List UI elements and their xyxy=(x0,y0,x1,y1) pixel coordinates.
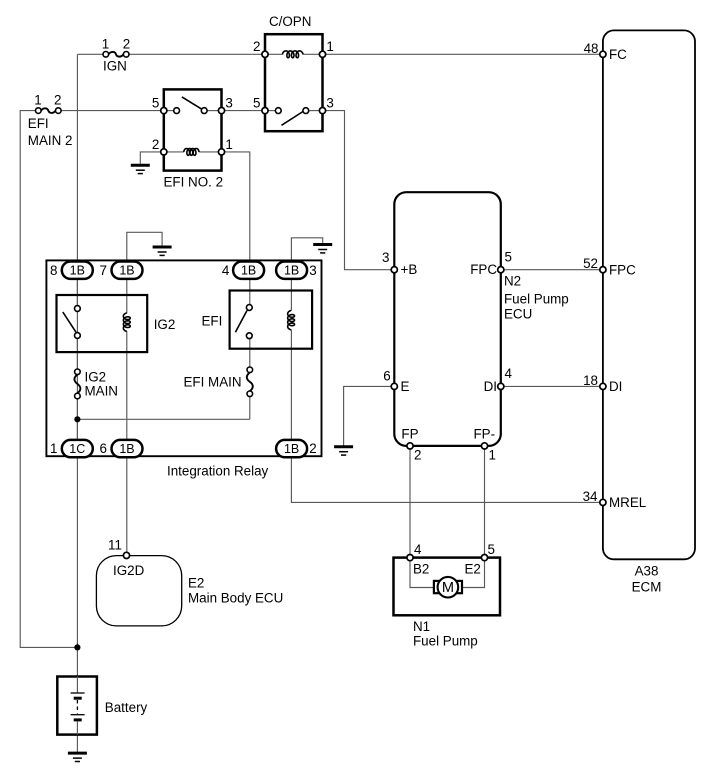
coil of EFI NO.2 relay xyxy=(184,149,199,156)
relay EFI box (inside Integration Relay) xyxy=(230,291,313,349)
coil of EFI relay xyxy=(288,311,295,330)
wire: EFI NO.2 pin 2 to ground xyxy=(140,152,164,165)
switch of EFI relay xyxy=(235,311,247,333)
ground (battery) xyxy=(68,752,87,755)
terminal FPC (pin 5) of Fuel Pump ECU xyxy=(498,267,504,273)
junction: battery / EFI MAIN 2 branch node xyxy=(74,644,80,650)
wire: EFI NO.2 coil stubs xyxy=(164,151,184,153)
terminal pin 2 of C/OPN xyxy=(262,51,268,57)
wire: Fuel Pump ECU FP to Fuel Pump pin 4 xyxy=(409,446,411,558)
terminal pin 5 of C/OPN xyxy=(262,108,268,114)
terminal FPC (pin 52) of ECM xyxy=(600,267,606,273)
svg-text:IGN: IGN xyxy=(103,59,127,74)
Main Body ECU E2 box xyxy=(96,556,181,626)
svg-text:1: 1 xyxy=(50,441,57,456)
svg-text:2: 2 xyxy=(309,441,316,456)
wire: IG2 relay switch column xyxy=(76,278,78,306)
wire: fuel pump motor return xyxy=(461,559,485,588)
svg-text:FP-: FP- xyxy=(474,427,496,442)
connector 1B (Integration Relay pin 7) xyxy=(112,262,143,279)
wire: battery negative to ground xyxy=(76,735,78,754)
svg-text:Main Body ECU: Main Body ECU xyxy=(188,590,283,605)
svg-text:18: 18 xyxy=(583,373,598,388)
svg-text:1B: 1B xyxy=(70,264,85,278)
svg-text:48: 48 xyxy=(584,41,599,56)
terminal pin 1 of EFI NO.2 xyxy=(218,149,224,155)
fusible link EFI MAIN xyxy=(247,372,253,391)
svg-text:FPC: FPC xyxy=(609,263,636,278)
wire: Fuel Pump ECU DI to ECM DI xyxy=(501,385,602,387)
svg-text:4: 4 xyxy=(414,542,422,557)
svg-text:3: 3 xyxy=(382,250,389,265)
terminal pin 5 of EFI NO.2 xyxy=(161,108,167,114)
terminal E (pin 6) of Fuel Pump ECU xyxy=(391,383,397,389)
svg-text:5: 5 xyxy=(505,250,512,265)
svg-text:IG2: IG2 xyxy=(154,317,176,332)
svg-text:FP: FP xyxy=(401,427,418,442)
terminal pin 3 of EFI NO.2 xyxy=(218,108,224,114)
svg-text:MREL: MREL xyxy=(609,495,646,510)
svg-text:8: 8 xyxy=(50,263,57,278)
svg-text:5: 5 xyxy=(488,542,495,557)
svg-text:3: 3 xyxy=(326,96,333,111)
wire: IGN fuse to C/OPN pin 2 xyxy=(129,53,265,55)
svg-text:2: 2 xyxy=(123,37,130,52)
motor M of fuel pump xyxy=(434,577,462,598)
svg-text:2: 2 xyxy=(253,39,260,54)
svg-text:ECM: ECM xyxy=(632,579,662,594)
ground (Fuel Pump ECU E) xyxy=(334,445,353,448)
wire: EFI NO.2 pin 3 to C/OPN pin 5 xyxy=(222,110,266,112)
battery xyxy=(57,677,97,735)
svg-text:A38: A38 xyxy=(635,563,659,578)
wire: Fuel Pump ECU FP- to Fuel Pump pin 5 xyxy=(484,446,486,558)
terminal FC (pin 48) of ECM xyxy=(600,51,606,57)
wire: Integration Relay pin 7 to ground xyxy=(127,232,162,262)
terminal pin 1 of C/OPN xyxy=(319,51,325,57)
connector 1B (Integration Relay pin 3) xyxy=(276,262,307,279)
coil of C/OPN relay xyxy=(282,51,303,58)
svg-text:7: 7 xyxy=(100,263,107,278)
connector 1B (Integration Relay pin 4) xyxy=(233,262,264,279)
wire: EFI NO.2 pin 1 to Integration Relay pin 4 xyxy=(222,152,250,262)
wire: C/OPN pin 3 to Fuel Pump ECU +B xyxy=(323,111,395,270)
Fuel Pump N1 box xyxy=(394,558,501,616)
wire: Integration Relay pin 6 to Main Body ECU IG2D xyxy=(126,456,128,552)
wire: Integration Relay pin 3 to ground xyxy=(291,238,322,262)
svg-text:6: 6 xyxy=(383,368,390,383)
terminal pin 2 of EFI NO.2 xyxy=(161,149,167,155)
svg-text:1: 1 xyxy=(34,93,41,108)
ground (Integration Relay pin 7) xyxy=(153,246,172,249)
ground (EFI NO.2 pin 2) xyxy=(131,164,150,167)
svg-text:ECU: ECU xyxy=(504,306,532,321)
fuse EFI MAIN 2 xyxy=(41,108,55,113)
svg-text:1B: 1B xyxy=(119,264,134,278)
relay C/OPN box xyxy=(265,34,323,131)
wire: EFI relay switch column xyxy=(249,278,251,305)
svg-text:1B: 1B xyxy=(284,442,299,456)
svg-text:1C: 1C xyxy=(69,442,85,456)
svg-text:+B: +B xyxy=(401,262,418,277)
fusible link IG2 MAIN xyxy=(74,374,80,393)
connector 1C (Integration Relay pin 1) xyxy=(62,440,93,457)
svg-text:E2: E2 xyxy=(188,576,204,591)
wire: C/OPN coil stubs xyxy=(265,53,283,55)
svg-text:C/OPN: C/OPN xyxy=(269,14,311,29)
svg-text:Battery: Battery xyxy=(105,700,148,715)
svg-text:1: 1 xyxy=(225,137,232,152)
svg-text:M: M xyxy=(442,580,454,596)
svg-text:Fuel Pump: Fuel Pump xyxy=(504,292,569,307)
svg-text:FPC: FPC xyxy=(470,262,497,277)
svg-text:N2: N2 xyxy=(504,273,521,288)
svg-text:N1: N1 xyxy=(413,619,430,634)
svg-text:11: 11 xyxy=(108,538,122,553)
svg-text:1: 1 xyxy=(326,39,333,54)
svg-text:1B: 1B xyxy=(119,442,134,456)
svg-text:Fuel Pump: Fuel Pump xyxy=(413,634,478,649)
switch of C/OPN relay xyxy=(265,110,275,112)
coil of IG2 relay xyxy=(123,313,130,332)
svg-text:MAIN: MAIN xyxy=(85,384,118,399)
terminal FP (pin 2) of Fuel Pump ECU xyxy=(407,443,413,449)
wire: EFI relay coil column xyxy=(290,278,292,311)
svg-text:E: E xyxy=(401,379,410,394)
relay EFI NO. 2 box xyxy=(164,89,222,170)
wire: Integration Relay pin 2 to ECM MREL xyxy=(291,456,602,502)
ground (Integration Relay pin 3) xyxy=(313,243,332,246)
connector 1B (Integration Relay pin 6) xyxy=(112,440,143,457)
terminal DI (pin 18) of ECM xyxy=(600,383,606,389)
svg-text:FC: FC xyxy=(609,47,627,62)
wire: battery column to IGN fuse xyxy=(77,53,103,55)
fuse IGN xyxy=(109,52,124,57)
svg-text:1: 1 xyxy=(102,37,109,52)
terminal B2 (pin 4) of Fuel Pump xyxy=(407,555,413,561)
svg-text:3: 3 xyxy=(225,96,232,111)
Integration Relay box xyxy=(46,260,321,456)
svg-text:1B: 1B xyxy=(241,264,256,278)
wire: battery branch to EFI MAIN 2 fuse xyxy=(20,111,77,648)
relay IG2 box (inside Integration Relay) xyxy=(57,295,148,352)
terminal +B (pin 3) of Fuel Pump ECU xyxy=(391,267,397,273)
svg-text:4: 4 xyxy=(505,366,513,381)
wire: Fuel Pump ECU E to ground xyxy=(344,386,395,446)
svg-text:DI: DI xyxy=(484,379,497,394)
terminal FP- (pin 1) of Fuel Pump ECU xyxy=(481,443,487,449)
terminal DI (pin 4) of Fuel Pump ECU xyxy=(498,383,504,389)
terminal IG2D (pin 11) of Main Body ECU xyxy=(123,552,129,558)
wire: EFI MAIN 2 fuse to EFI NO.2 pin 5 xyxy=(61,110,164,112)
svg-text:EFI: EFI xyxy=(28,116,49,131)
wire: battery positive column xyxy=(76,54,78,676)
svg-text:DI: DI xyxy=(609,379,622,394)
svg-text:2: 2 xyxy=(152,137,159,152)
svg-text:MAIN 2: MAIN 2 xyxy=(28,133,73,148)
svg-text:4: 4 xyxy=(222,263,230,278)
svg-text:B2: B2 xyxy=(413,562,429,577)
svg-text:1: 1 xyxy=(489,447,496,462)
ECM A38 box xyxy=(603,30,695,559)
junction: IG2 MAIN / EFI MAIN node xyxy=(74,416,80,422)
svg-text:2: 2 xyxy=(54,93,61,108)
svg-text:5: 5 xyxy=(152,96,159,111)
svg-text:34: 34 xyxy=(583,489,598,504)
wire: C/OPN pin 1 to ECM FC xyxy=(323,53,603,55)
wire: Fuel Pump ECU FPC to ECM FPC xyxy=(501,269,602,271)
svg-text:EFI MAIN: EFI MAIN xyxy=(184,375,242,390)
svg-text:EFI NO. 2: EFI NO. 2 xyxy=(164,175,224,190)
wire: IG2 coil column xyxy=(126,278,128,313)
terminal pin 3 of C/OPN xyxy=(319,108,325,114)
switch of EFI NO.2 relay xyxy=(164,110,174,112)
terminal MREL (pin 34) of ECM xyxy=(600,499,606,505)
svg-text:IG2: IG2 xyxy=(85,370,107,385)
svg-text:EFI: EFI xyxy=(202,314,223,329)
svg-text:2: 2 xyxy=(414,447,421,462)
terminal E2 (pin 5) of Fuel Pump xyxy=(481,555,487,561)
connector 1B (Integration Relay pin 8) xyxy=(62,262,93,279)
svg-text:52: 52 xyxy=(583,256,598,271)
connector 1B (Integration Relay pin 2) xyxy=(276,440,307,457)
svg-text:E2: E2 xyxy=(465,562,481,577)
svg-text:6: 6 xyxy=(100,441,107,456)
svg-text:IG2D: IG2D xyxy=(113,563,145,578)
wire: junction row IG2 MAIN / EFI MAIN xyxy=(77,418,249,420)
Fuel Pump ECU N2 box xyxy=(394,192,501,446)
wire: fuel pump motor feed xyxy=(410,559,435,588)
svg-text:5: 5 xyxy=(253,96,260,111)
svg-text:3: 3 xyxy=(309,263,316,278)
svg-text:1B: 1B xyxy=(284,264,299,278)
switch of IG2 relay xyxy=(63,312,76,332)
svg-text:Integration Relay: Integration Relay xyxy=(167,464,269,479)
